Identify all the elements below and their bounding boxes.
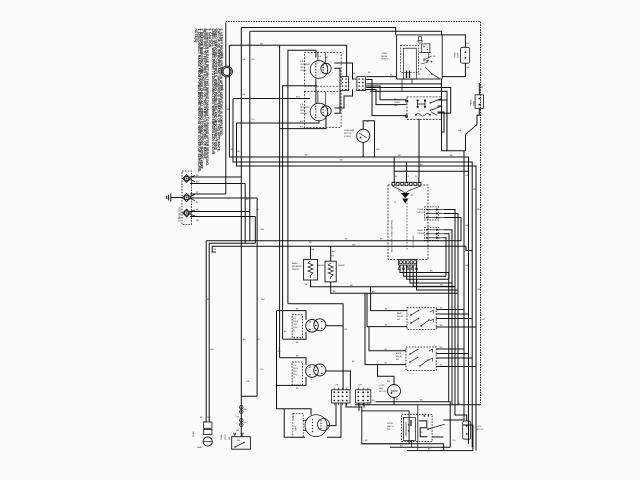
svg-text:5. VERIFY PROPER OPERATION AFT: 5. VERIFY PROPER OPERATION AFTER SERVICI… (219, 29, 223, 137)
bottom element top lead (277, 409, 312, 415)
svg-text:OVEN: OVEN (381, 53, 387, 55)
svg-text:SW: SW (397, 319, 400, 321)
wire bake top (310, 246, 312, 259)
svg-text:ELECTRONIC OVEN CONTROL: ELECTRONIC OVEN CONTROL (392, 219, 394, 252)
wire cluster drop x280 to lower cluster (279, 311, 281, 358)
wire x458 down (457, 290, 459, 405)
bottom unit dashed box (293, 414, 303, 438)
wire relay bottom a (366, 83, 441, 85)
svg-text:SURF: SURF (296, 425, 298, 431)
wire L1 lead lower (190, 183, 245, 185)
svg-text:OVEN: OVEN (394, 102, 400, 104)
wire motor top to S2 (378, 365, 395, 385)
svg-text:LATCH: LATCH (387, 425, 394, 428)
wire lower nest 1 (204, 241, 207, 422)
terminal lead stubs (190, 176, 196, 178)
surface element LR (310, 103, 328, 121)
wires connectors down (327, 403, 341, 437)
wire cluster drop x288 (288, 303, 292, 305)
oven fan motor (357, 129, 370, 142)
bake element box (304, 259, 318, 280)
svg-text:LAMP: LAMP (197, 446, 203, 449)
wires S1 left (371, 287, 407, 311)
wire relay pin stubs (401, 79, 403, 91)
wires connectors right (366, 80, 406, 116)
wire lock motor top (455, 415, 467, 421)
svg-text:BOARD: BOARD (381, 58, 389, 61)
svg-text:L.F.: L.F. (300, 61, 304, 63)
wire feeder x245 down (244, 184, 246, 244)
latch step contact (419, 421, 428, 437)
RR bottom lead (291, 377, 306, 385)
cluster mid drop (283, 86, 317, 313)
svg-text:UNIT: UNIT (300, 67, 305, 69)
svg-text:BROIL: BROIL (318, 265, 325, 267)
connector grid P4 (331, 390, 350, 403)
RR top lead (291, 358, 306, 365)
wire relay bottom c (370, 91, 447, 151)
terminal block outline (182, 171, 192, 225)
door switch diagonal (466, 125, 478, 135)
cluster enclosure line inner (288, 50, 316, 303)
svg-text:LOCK: LOCK (476, 426, 482, 428)
notes text block (194, 29, 223, 173)
svg-text:LIGHT: LIGHT (458, 52, 460, 58)
wires selector right (438, 100, 447, 151)
svg-text:WH: WH (261, 229, 265, 231)
terminal L2 (183, 209, 191, 217)
wire mid bus B (233, 99, 472, 448)
wire feeder x241 down to light switch (240, 177, 242, 437)
wires cluster to connectors (334, 68, 340, 76)
wire L1 riser (240, 28, 242, 178)
wire bottom c (390, 446, 450, 448)
wire mid bus C (237, 123, 477, 451)
selector wavy contact (416, 114, 430, 117)
svg-text:WH: WH (207, 417, 211, 419)
S1 contacts (411, 311, 419, 316)
wire units vertical link (315, 78, 317, 103)
wire relay bottom b (366, 88, 450, 114)
wire bottom b (362, 444, 444, 451)
wire bottom d (407, 425, 473, 451)
latch wire mid (417, 405, 419, 442)
svg-text:1800: 1800 (293, 374, 297, 376)
wire feeder x255 down (254, 217, 256, 244)
wires ERC bottom nest (400, 265, 449, 402)
relay contacts (419, 52, 431, 54)
svg-text:LATCH: LATCH (418, 211, 425, 214)
svg-text:WH: WH (473, 189, 477, 191)
wire N lead long (190, 197, 257, 199)
svg-text:PROBE: PROBE (418, 233, 425, 235)
latch pins (424, 415, 425, 416)
oven lamp upper (461, 47, 470, 63)
RR surface element (306, 365, 319, 378)
wire lower nest 2 (208, 243, 210, 422)
svg-text:2: 2 (320, 73, 321, 75)
svg-text:W: W (293, 330, 295, 332)
door lock motor box (463, 421, 471, 439)
RF dashed switch box (292, 315, 302, 338)
wire lower nest 3 (212, 246, 216, 252)
svg-text:1200W: 1200W (300, 70, 306, 72)
svg-text:1: 1 (317, 63, 318, 65)
wires S2 right (436, 348, 464, 350)
svg-text:WH: WH (352, 244, 356, 246)
svg-text:DOOR: DOOR (418, 209, 424, 211)
svg-text:R.R.: R.R. (293, 365, 297, 367)
wire J2 to relay box (366, 76, 396, 78)
ERC right connector lower (425, 227, 439, 240)
wire cluster top feed 1 (229, 44, 279, 46)
svg-text:SURFACE: SURFACE (300, 106, 310, 109)
svg-text:RELAY: RELAY (396, 355, 403, 358)
wire LF top stubs (317, 53, 319, 61)
relay inner rect (403, 48, 416, 79)
wire relay to lamp (442, 35, 465, 47)
svg-text:TERM BLOCK: TERM BLOCK (180, 207, 182, 222)
light switch connector beads (240, 406, 244, 410)
convection motor (388, 385, 401, 398)
S2 contacts (410, 350, 418, 355)
svg-text:DOOR: DOOR (387, 423, 394, 425)
wire bottom a (375, 402, 450, 447)
svg-text:BLK: BLK (394, 99, 398, 101)
wire color labels (207, 59, 485, 451)
wires ERC right upper (444, 210, 455, 287)
thermal fuse box (475, 95, 484, 109)
cluster top loop (292, 304, 343, 390)
wire feeder x250 (249, 31, 251, 241)
connector grid P5 (356, 390, 371, 403)
relay box outline (397, 35, 443, 79)
svg-text:GRN: GRN (222, 52, 225, 58)
wire L1 lead upper (190, 176, 241, 178)
wire burner to connector (327, 403, 336, 426)
oven light connectors (204, 422, 212, 428)
wire x455 down (454, 286, 456, 415)
bottom element left loop (284, 409, 305, 438)
power cord grommet (222, 66, 233, 77)
svg-text:UNIT: UNIT (300, 110, 305, 112)
svg-text:SURFACE: SURFACE (300, 63, 310, 66)
ERC inner dashed divider (406, 200, 408, 250)
relay box top pin (419, 37, 422, 41)
svg-text:MOTOR: MOTOR (476, 429, 484, 431)
svg-text:CONV: CONV (379, 385, 385, 387)
wire cluster drop x283 (282, 313, 284, 339)
switch assembly S1 dashed box (407, 308, 436, 330)
svg-text:WH: WH (261, 299, 265, 301)
svg-text:RELAY: RELAY (397, 315, 404, 318)
selector switch dashed box (407, 97, 442, 119)
wire fan bottom (362, 148, 364, 157)
RF surface element (306, 320, 319, 333)
dashed box LF surface unit (304, 53, 341, 87)
svg-text:WH: WH (227, 109, 231, 111)
wire latch right (432, 436, 443, 438)
svg-text:OVEN: OVEN (221, 434, 223, 440)
dashed box LR surface unit (304, 92, 341, 128)
svg-text:L1: L1 (419, 111, 421, 113)
wires ERC right lower (444, 230, 452, 283)
RF bottom lead (291, 332, 306, 339)
svg-text:WH: WH (210, 349, 214, 351)
wire top bus 2 (241, 28, 395, 35)
svg-text:THERM: THERM (471, 99, 473, 106)
svg-text:SW: SW (387, 429, 390, 431)
switch assembly S2 dashed box (406, 347, 436, 370)
svg-text:1200W: 1200W (300, 113, 306, 115)
svg-text:P12: P12 (398, 191, 401, 193)
svg-text:BLK: BLK (296, 97, 300, 99)
RR dashed switch box (292, 362, 302, 385)
wire switch loop right (241, 395, 257, 397)
svg-text:1200: 1200 (293, 327, 297, 329)
selector H contact (417, 99, 419, 101)
svg-text:BROIL: BROIL (396, 353, 402, 355)
latch bottom stubs (411, 441, 413, 448)
svg-text:BAKE: BAKE (292, 262, 298, 265)
wire L2 lead lower (190, 216, 255, 218)
svg-text:WH: WH (376, 149, 380, 151)
wires S2 left (369, 327, 406, 351)
wires S1 right (436, 309, 464, 311)
ERC top pin row (392, 183, 395, 186)
RF top lead (291, 311, 306, 320)
wire ERC top to right bus (394, 170, 468, 172)
svg-text:OVEN: OVEN (193, 431, 195, 437)
wire L2 lead upper (190, 211, 250, 213)
wire door switch down (465, 135, 467, 151)
wire N lead to plug (190, 193, 226, 195)
wire top bus 1 ground loop (226, 22, 481, 406)
wire relay right leg down (442, 79, 466, 420)
wire fan top (363, 121, 374, 157)
wire LR top stubs (317, 92, 319, 104)
svg-text:SW: SW (396, 359, 399, 361)
wire broil top (330, 246, 332, 261)
wire plug-bottom to neutral (225, 77, 227, 194)
door latch dashed box (402, 414, 433, 441)
ERC right connector upper (425, 207, 439, 220)
svg-text:OVEN: OVEN (455, 52, 457, 58)
wire plug-top (225, 22, 227, 66)
svg-text:2400W: 2400W (292, 269, 299, 271)
svg-text:ELEMENT: ELEMENT (292, 266, 303, 268)
svg-text:LIGHT: LIGHT (225, 433, 227, 440)
oven light bulb (203, 437, 212, 446)
lower latch box outline (362, 411, 409, 444)
wire selector bottom drop (418, 119, 420, 178)
bottom surface element (305, 415, 327, 437)
electronic oven control dashed box (388, 185, 428, 259)
wire mid bus A (229, 45, 468, 444)
svg-text:BAKE: BAKE (397, 312, 403, 315)
wire top bus 3 (250, 31, 441, 35)
svg-text:FAN: FAN (379, 387, 383, 390)
wire cluster feed 2 (233, 98, 310, 100)
wire bottom long (355, 404, 481, 406)
svg-text:W: W (293, 377, 295, 379)
svg-text:MEAT: MEAT (418, 229, 424, 232)
cluster enclosure line outer (280, 45, 347, 311)
bottom unit stubs (303, 420, 306, 422)
terminal N (182, 193, 190, 201)
surface element LF (310, 61, 328, 79)
svg-text:W: W (394, 202, 396, 204)
cluster right connections (326, 325, 343, 327)
wire fuse up (478, 83, 480, 95)
wire fuse to door switch (477, 108, 479, 124)
wires ERC top pins up (393, 157, 395, 182)
svg-text:SW: SW (229, 437, 231, 440)
svg-text:L.R.: L.R. (300, 104, 304, 106)
latch inner rect (404, 418, 416, 441)
ERC bottom pin triangles (398, 266, 400, 269)
ground symbol (171, 197, 183, 199)
ERC top funnel (393, 186, 406, 193)
svg-text:FUSE: FUSE (473, 100, 475, 106)
svg-text:3600W: 3600W (338, 265, 345, 267)
terminal L1 (183, 175, 191, 183)
svg-text:WHT: WHT (222, 84, 225, 90)
wire broil bottom (331, 282, 458, 293)
connector block J1 (340, 77, 349, 91)
wire feeder x257 down (256, 198, 258, 396)
selector right diagonals (430, 99, 442, 104)
latch diagonal (428, 424, 445, 429)
wire LR bottom leads (237, 121, 320, 123)
svg-text:MOTOR: MOTOR (379, 391, 387, 393)
svg-text:OVEN FAN: OVEN FAN (344, 129, 355, 132)
broil element box (325, 261, 336, 282)
svg-text:RD: RD (196, 210, 200, 212)
svg-text:MOTOR: MOTOR (344, 133, 352, 135)
selector left terminals (406, 100, 408, 102)
wire lamp return (442, 63, 465, 76)
cluster left bus (276, 311, 278, 409)
wire nest right drops (460, 218, 462, 241)
ERC bottom pin row (399, 259, 417, 265)
svg-text:R.R.: R.R. (293, 415, 295, 419)
relay aux box (422, 44, 430, 53)
svg-text:SW: SW (458, 130, 461, 132)
light switch box (232, 437, 251, 450)
svg-text:RELAY: RELAY (381, 55, 388, 58)
svg-text:WH: WH (359, 385, 363, 387)
relay box dashed inner (401, 45, 419, 72)
wire bake bottom (311, 280, 456, 287)
svg-text:RD: RD (196, 220, 200, 222)
connector block J2 (357, 77, 365, 91)
svg-text:(CONV): (CONV) (344, 136, 351, 138)
svg-text:3. SERVICER PLEASE RETURN THIS: 3. SERVICER PLEASE RETURN THIS WIRING DI… (205, 29, 209, 167)
wire x452 down (451, 283, 453, 405)
